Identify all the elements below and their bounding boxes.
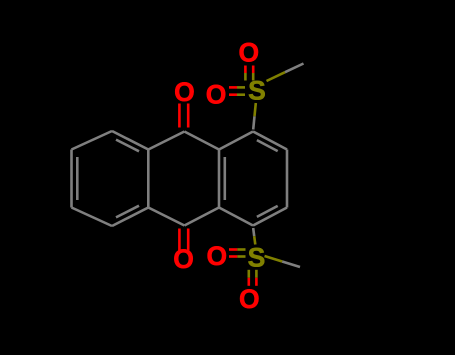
svg-text:O: O [174,77,195,107]
svg-text:O: O [206,241,227,271]
svg-text:O: O [238,37,259,67]
svg-text:S: S [248,75,266,105]
svg-text:O: O [206,79,227,109]
svg-text:O: O [239,284,260,314]
svg-text:O: O [173,244,194,274]
svg-text:S: S [248,242,266,272]
